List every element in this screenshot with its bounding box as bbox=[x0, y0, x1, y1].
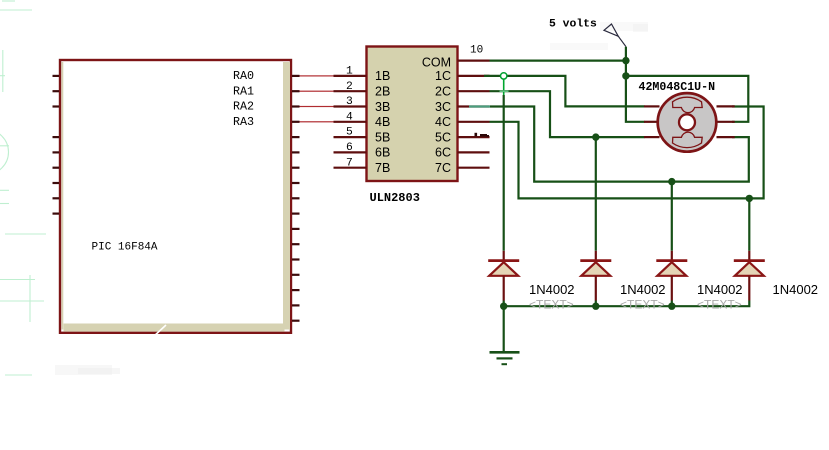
svg-text:4C: 4C bbox=[435, 115, 451, 129]
junction 2C net to D2 bbox=[592, 133, 599, 140]
white scratch artifact on PIC bottom border bbox=[152, 325, 166, 338]
wire ground bus to ground symbol bbox=[503, 306, 505, 351]
PIC left pin ticks bbox=[53, 76, 60, 214]
power terminal arrow 5V bbox=[604, 24, 626, 47]
svg-text:6: 6 bbox=[346, 142, 353, 154]
wire 4C to motor top-right coil end bbox=[490, 107, 764, 199]
faint screenshot artifacts bbox=[55, 22, 648, 375]
diode D4 1N4002 bbox=[734, 251, 765, 301]
sheet border template marks (pale green) bbox=[0, 1, 46, 375]
svg-text:<TEXT>: <TEXT> bbox=[529, 298, 574, 312]
wire 1C to motor top-left coil end bbox=[484, 76, 645, 107]
ULN2803 right pin stubs COM,1C-7C bbox=[458, 61, 490, 168]
svg-text:1B: 1B bbox=[375, 69, 390, 83]
junction ground bus at D3 bbox=[668, 303, 675, 310]
wire 5V branch to motor mid-right center tap bbox=[626, 76, 748, 122]
svg-text:RA0: RA0 bbox=[233, 69, 254, 83]
wire RA1 to pin 2B bbox=[300, 91, 334, 92]
svg-text:5C: 5C bbox=[435, 130, 451, 144]
svg-text:PIC 16F84A: PIC 16F84A bbox=[92, 242, 158, 254]
svg-text:6C: 6C bbox=[435, 146, 451, 160]
wire D3 anode to ground bus bbox=[671, 301, 673, 307]
wire 3C to motor bottom-right coil end bbox=[490, 107, 749, 182]
svg-text:4B: 4B bbox=[375, 115, 390, 129]
highlighted wire segment below node marker bbox=[503, 79, 505, 95]
svg-text:5B: 5B bbox=[375, 130, 390, 144]
svg-text:3C: 3C bbox=[435, 100, 451, 114]
svg-text:7C: 7C bbox=[435, 161, 451, 175]
svg-text:10: 10 bbox=[470, 45, 483, 57]
stepper motor pole top bbox=[673, 97, 703, 112]
junction 5V rail branch to center taps bbox=[622, 72, 629, 79]
svg-text:5 volts: 5 volts bbox=[549, 19, 597, 31]
stepper motor pole bottom bbox=[673, 132, 703, 147]
svg-text:2C: 2C bbox=[435, 85, 451, 99]
stepper motor shaft bbox=[679, 114, 695, 130]
junction ground bus at D1 bbox=[500, 303, 507, 310]
artifact mark on 5C stub bbox=[475, 133, 490, 137]
svg-text:1N4002: 1N4002 bbox=[697, 282, 743, 297]
ULN2803 left pin stubs 1B-7B bbox=[334, 76, 367, 168]
junction 5V rail at COM bbox=[622, 57, 629, 64]
PIC right pin ticks RA0-RA4,RB0-RB7 bbox=[292, 76, 300, 321]
svg-text:2: 2 bbox=[346, 81, 353, 93]
wire 2C to motor bottom-left coil end bbox=[490, 91, 645, 137]
wire 1C net down to diode D1 bbox=[503, 95, 505, 251]
svg-text:COM: COM bbox=[422, 56, 451, 70]
junction 4C net to D4 bbox=[746, 195, 753, 202]
wire RA2 to pin 3B bbox=[300, 106, 334, 107]
svg-text:RA2: RA2 bbox=[233, 100, 254, 114]
svg-text:3: 3 bbox=[346, 96, 353, 108]
svg-text:1: 1 bbox=[346, 66, 353, 78]
node marker on 1C wire bbox=[501, 73, 507, 79]
wire 3C net down to diode D3 bbox=[671, 182, 673, 251]
crossing highlight on 2C wire bbox=[500, 90, 509, 92]
wire 5V rail down to motor mid-left center tap bbox=[626, 47, 645, 122]
diode D2 1N4002 bbox=[580, 251, 611, 301]
svg-text:6B: 6B bbox=[375, 146, 390, 160]
wire ground bus bbox=[504, 301, 750, 307]
svg-text:4: 4 bbox=[346, 111, 353, 123]
svg-text:ULN2803: ULN2803 bbox=[370, 191, 420, 205]
svg-text:RA3: RA3 bbox=[233, 115, 254, 129]
ground symbol bbox=[490, 352, 520, 364]
svg-text:42M048C1U-N: 42M048C1U-N bbox=[639, 81, 716, 94]
wire D2 anode to ground bus bbox=[595, 301, 597, 307]
svg-text:RA1: RA1 bbox=[233, 84, 254, 98]
svg-text:1N4002: 1N4002 bbox=[529, 282, 575, 297]
wire RA0 to pin 1B bbox=[300, 75, 334, 76]
stepper motor M1 pin stubs bbox=[644, 106, 735, 137]
svg-text:3B: 3B bbox=[375, 100, 390, 114]
diode D1 1N4002 bbox=[488, 251, 519, 301]
junction 3C net to D3 bbox=[668, 178, 675, 185]
svg-text:1N4002: 1N4002 bbox=[620, 282, 666, 297]
svg-text:1C: 1C bbox=[435, 69, 451, 83]
svg-text:7B: 7B bbox=[375, 161, 390, 175]
svg-text:2B: 2B bbox=[375, 85, 390, 99]
microcontroller U2 PIC16F84A body bbox=[60, 60, 291, 333]
diode D3 1N4002 bbox=[656, 251, 687, 301]
wire COM pin to 5V node bbox=[490, 59, 626, 61]
wire 2C net down to diode D2 bbox=[595, 137, 597, 251]
wire 4C net down to diode D4 bbox=[748, 198, 750, 250]
highlighted wire segment on 3C pin bbox=[469, 105, 490, 107]
svg-text:5: 5 bbox=[346, 127, 353, 139]
driver U1 ULN2803 body bbox=[367, 47, 458, 182]
junction ground bus at D2 bbox=[592, 303, 599, 310]
wire D1 anode to ground bus bbox=[503, 301, 505, 307]
stepper motor M1 body bbox=[658, 93, 717, 152]
svg-text:<TEXT>: <TEXT> bbox=[697, 298, 742, 312]
wire RA3 to pin 4B bbox=[300, 121, 334, 122]
svg-text:7: 7 bbox=[346, 157, 353, 169]
svg-text:<TEXT>: <TEXT> bbox=[620, 298, 665, 312]
svg-text:1N4002: 1N4002 bbox=[773, 282, 819, 297]
